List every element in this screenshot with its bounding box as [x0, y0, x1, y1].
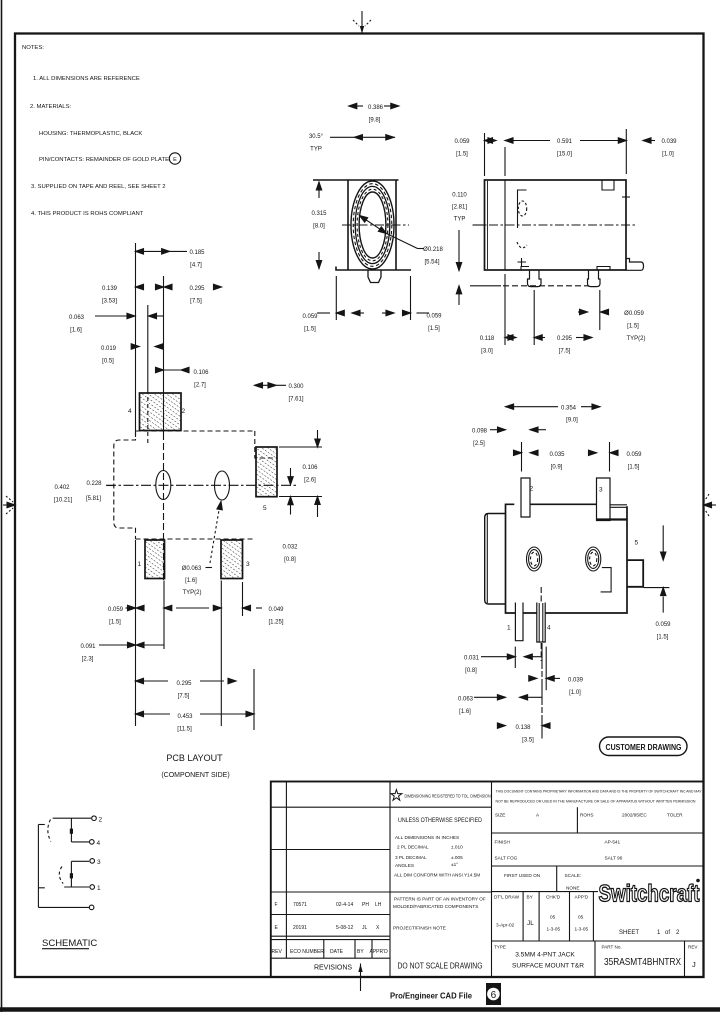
svg-text:JL: JL [527, 920, 534, 927]
svg-text:0.139: 0.139 [102, 286, 118, 292]
svg-text:[0.8]: [0.8] [284, 557, 296, 563]
svg-text:CUSTOMER DRAWING: CUSTOMER DRAWING [606, 743, 682, 752]
svg-text:0.110: 0.110 [452, 193, 467, 199]
front view dim texts [302, 105, 443, 333]
right edge tick [622, 196, 630, 198]
right center alignment arrow [704, 494, 717, 516]
svg-text:[3.53]: [3.53] [102, 299, 117, 305]
dim 0.354 width top [506, 404, 600, 409]
svg-text:[2.81]: [2.81] [452, 205, 467, 211]
svg-text:PART No.: PART No. [602, 945, 622, 950]
svg-text:DATE: DATE [330, 949, 344, 955]
body top line [313, 179, 399, 181]
horizontal centerline through holes [106, 484, 296, 486]
svg-text:5: 5 [635, 540, 639, 547]
svg-text:1-3-05: 1-3-05 [575, 927, 589, 932]
dim 0.039 [1.0] right arrow [643, 138, 655, 143]
svg-text:2. MATERIALS:: 2. MATERIALS: [30, 104, 71, 110]
svg-text:0.091: 0.091 [80, 644, 96, 650]
pin 1b (bottom) [515, 603, 523, 641]
svg-text:4: 4 [128, 408, 132, 415]
svg-text:ROHS: ROHS [580, 813, 594, 818]
BOTTOM-VIEW-DIMENSIONS [474, 404, 669, 739]
svg-text:0.059: 0.059 [626, 452, 642, 458]
SIDE-VIEW-DIMENSIONS [456, 129, 655, 345]
pin 5 (right) [627, 560, 643, 587]
top center alignment tick [353, 11, 371, 34]
svg-text:[2.7]: [2.7] [194, 383, 206, 389]
pin A J-lead [528, 270, 542, 287]
pin 4 (bottom) [537, 603, 545, 643]
svg-text:3: 3 [246, 561, 250, 568]
top-right notch [602, 180, 614, 190]
hole ellipse C mid [529, 550, 540, 569]
svg-text:E: E [275, 925, 279, 931]
outer box [271, 782, 704, 978]
svg-text:NONE: NONE [566, 886, 580, 891]
svg-text:2: 2 [676, 930, 680, 936]
svg-text:ECO NUMBER: ECO NUMBER [290, 949, 324, 955]
svg-text:1: 1 [657, 930, 661, 936]
extension lines below pins [504, 274, 506, 345]
svg-text:30.5°: 30.5° [309, 134, 324, 140]
dim 0.098 [2.5] [490, 427, 546, 432]
svg-text:SHEET: SHEET [619, 930, 639, 936]
svg-text:DO NOT SCALE DRAWING: DO NOT SCALE DRAWING [398, 962, 483, 971]
page left edge line [1, 0, 3, 1012]
dim 0.300 [7.61] double arrow [255, 383, 287, 388]
svg-text:1: 1 [507, 625, 511, 632]
terminal circle 3 [90, 859, 95, 864]
star symbol [391, 790, 402, 801]
svg-text:(COMPONENT SIDE): (COMPONENT SIDE) [161, 772, 229, 779]
svg-text:UNLESS OTHERWISE SPECIFIED: UNLESS OTHERWISE SPECIFIED [398, 817, 482, 824]
seating plane datum line [470, 285, 501, 287]
svg-text:[7.5]: [7.5] [190, 299, 202, 305]
right section divider [491, 782, 493, 978]
svg-text:[7.5]: [7.5] [559, 349, 571, 355]
svg-text:ANGLES: ANGLES [395, 863, 414, 868]
svg-text:0.591: 0.591 [557, 139, 573, 145]
pin 4 inner lines [538, 603, 540, 642]
svg-text:2 PL DECIMAL: 2 PL DECIMAL [397, 845, 429, 850]
part outline dashed [136, 430, 255, 432]
svg-text:5-08-12: 5-08-12 [336, 925, 353, 931]
pin 3 (top) [597, 478, 611, 521]
svg-text:4. THIS PRODUCT IS ROHS COMPLI: 4. THIS PRODUCT IS ROHS COMPLIANT [31, 211, 144, 217]
svg-text:±1°: ±1° [451, 862, 458, 867]
svg-text:0.402: 0.402 [54, 485, 70, 491]
left cap inner line [486, 515, 488, 604]
svg-text:F: F [275, 902, 278, 908]
bottom extension lines [135, 540, 137, 726]
terminal circle 1 [90, 885, 95, 890]
dim row y726 [497, 723, 550, 728]
left center alignment arrow [3, 496, 15, 514]
svg-text:TYP: TYP [454, 217, 466, 223]
TITLE-BLOCK [271, 782, 704, 978]
svg-text:[5.81]: [5.81] [86, 496, 101, 502]
SCHEMATIC [38, 816, 102, 949]
jack opening ellipse inner [359, 192, 386, 258]
line to terminal 4 [71, 841, 89, 843]
body outline [506, 504, 628, 613]
svg-text:20191: 20191 [293, 925, 307, 931]
svg-text:±.010: ±.010 [451, 845, 463, 850]
bracket stub mid [38, 887, 44, 889]
terminal circle 4 [90, 840, 95, 845]
svg-text:0.063: 0.063 [69, 315, 85, 321]
svg-text:[1.5]: [1.5] [456, 152, 468, 158]
Switchcraft logo [599, 879, 700, 908]
svg-text:PH: PH [362, 902, 369, 908]
pad5 small vertical dim arrows [288, 468, 293, 515]
svg-text:E: E [173, 157, 177, 163]
contact L-bracket [601, 568, 612, 592]
svg-text:0.118: 0.118 [480, 336, 495, 342]
svg-text:[15.0]: [15.0] [557, 152, 572, 158]
bottom small step left of pin A [521, 267, 529, 271]
svg-text:Pro/Engineer CAD File: Pro/Engineer CAD File [390, 991, 472, 1001]
svg-text:2: 2 [182, 408, 186, 415]
BOTTOM-VIEW [485, 478, 644, 661]
NOTES-BLOCK [22, 45, 169, 217]
svg-text:2: 2 [530, 486, 534, 493]
svg-text:6: 6 [491, 990, 497, 1001]
FOOTER outside frame [390, 983, 501, 1005]
side view dim texts [426, 139, 677, 355]
pin1 width dim [514, 442, 539, 472]
left narrow column line [285, 782, 287, 959]
svg-text:[0.8]: [0.8] [465, 668, 477, 674]
FRONT-VIEW-DIMENSIONS [316, 103, 429, 320]
sleeve line to terminal 5 [38, 906, 89, 908]
jack ellipse ring dashed 1 [353, 184, 392, 267]
svg-text:3. SUPPLIED ON TAPE AND REEL,: 3. SUPPLIED ON TAPE AND REEL, SEE SHEET … [31, 184, 166, 190]
svg-text:SCALE:: SCALE: [565, 873, 582, 878]
hole ellipse D inner dashed [590, 552, 597, 566]
svg-text:HOUSING: THERMOPLASTIC, BLACK: HOUSING: THERMOPLASTIC, BLACK [39, 131, 142, 137]
svg-text:0.019: 0.019 [101, 346, 117, 352]
svg-text:0.032: 0.032 [282, 545, 298, 551]
svg-text:0.295: 0.295 [557, 336, 573, 342]
svg-text:[5.54]: [5.54] [424, 260, 439, 266]
pad 3 hatched (bottom-right) [221, 540, 243, 579]
svg-text:0.315: 0.315 [311, 211, 327, 217]
hole ellipse A [156, 471, 171, 500]
svg-text:3 PL DECIMAL: 3 PL DECIMAL [395, 855, 427, 860]
svg-text:0.098: 0.098 [472, 429, 488, 435]
svg-text:4: 4 [97, 840, 101, 847]
svg-text:REV: REV [272, 949, 283, 955]
pin5 vertical dim [661, 525, 666, 612]
dim 0.019 [0.5] row [131, 344, 163, 349]
tip contact lower dashes [517, 242, 527, 248]
switch link tip [70, 818, 72, 842]
svg-text:0.039: 0.039 [661, 139, 677, 145]
svg-text:ALL DIM CONFORM WITH ANSI Y14.: ALL DIM CONFORM WITH ANSI Y14.5M [394, 873, 480, 878]
SIDE-VIEW [470, 180, 644, 287]
svg-text:TYP(2): TYP(2) [626, 336, 645, 342]
line to terminal 1 [64, 886, 89, 888]
title block texts [272, 790, 702, 972]
date table dividers [522, 892, 524, 941]
extension lines above body [484, 133, 486, 176]
vertical extension line left (x 135.5) [135, 243, 137, 437]
svg-text:0.031: 0.031 [464, 656, 480, 662]
svg-text:2002/95/EC: 2002/95/EC [622, 813, 647, 818]
jack ellipse ring dashed 3 [357, 189, 388, 261]
dim 0.295 [7.5] arrow [576, 335, 592, 340]
bottom view dim texts [458, 406, 671, 744]
dim 0.110 [2.81] TYP vertical [456, 225, 484, 271]
svg-text:1: 1 [97, 885, 101, 892]
dim 0.591 [15.0] body length [515, 138, 626, 143]
svg-text:TYP: TYP [310, 147, 322, 153]
svg-text:PATTERN IS PART OF AN INVENTOR: PATTERN IS PART OF AN INVENTORY OF [394, 897, 486, 902]
bottom center alignment tick [358, 964, 362, 992]
bottom dim arrows of front view [317, 310, 429, 315]
svg-text:[10.21]: [10.21] [54, 498, 73, 504]
svg-text:PROJECT/FINISH NOTE: PROJECT/FINISH NOTE [393, 926, 446, 931]
svg-text:70571: 70571 [293, 902, 307, 908]
svg-text:0.300: 0.300 [288, 384, 304, 390]
svg-text:0.386: 0.386 [368, 105, 384, 111]
svg-text:A: A [536, 813, 540, 818]
svg-text:BY: BY [357, 949, 364, 955]
revision rows text [272, 902, 389, 955]
svg-text:0.106: 0.106 [302, 465, 318, 471]
body bottom line with left hook [336, 267, 411, 271]
hole ellipse C outer [527, 547, 542, 571]
svg-text:±.005: ±.005 [451, 855, 463, 860]
terminal circle 5 [89, 905, 94, 910]
svg-text:1-3-05: 1-3-05 [547, 927, 561, 932]
svg-text:Ø0.218: Ø0.218 [423, 247, 443, 253]
svg-text:[4.7]: [4.7] [190, 263, 202, 269]
svg-text:4: 4 [547, 625, 551, 632]
svg-text:3: 3 [599, 487, 603, 494]
crosshair mark lower left [518, 258, 527, 266]
svg-text:NOTES:: NOTES: [22, 45, 44, 51]
bottom step right of pin B [597, 267, 610, 271]
body right edge [395, 180, 397, 270]
horizontal centerline [342, 224, 409, 226]
scale cell divider [556, 866, 558, 892]
ground bracket vertical [37, 825, 39, 908]
svg-text:ALL DIMENSIONS IN INCHES: ALL DIMENSIONS IN INCHES [395, 835, 459, 840]
tip line to terminal 2 [53, 817, 91, 819]
CUSTOMER DRAWING stamp [600, 737, 688, 756]
svg-text:Ø0.059: Ø0.059 [624, 311, 644, 317]
vertical center line pad2/hole A [163, 276, 165, 433]
terminal circle 2 [92, 816, 97, 821]
svg-text:[1.0]: [1.0] [569, 690, 581, 696]
svg-text:Switchcraft: Switchcraft [599, 881, 700, 908]
contact dot ring switch [70, 873, 73, 878]
dim row y714 [136, 711, 255, 716]
svg-text:Ø0.063: Ø0.063 [182, 566, 202, 572]
pad 5 hatched (right) [256, 447, 277, 497]
right section row lines [492, 832, 704, 834]
svg-text:0.059: 0.059 [426, 314, 442, 320]
svg-text:0.049: 0.049 [268, 607, 284, 613]
svg-text:REV: REV [688, 945, 698, 950]
svg-text:SIZE: SIZE [495, 813, 505, 818]
pad5 height dim arrows [315, 430, 320, 517]
svg-text:[2.3]: [2.3] [82, 657, 94, 663]
tip contact dashed ellipse [518, 201, 526, 216]
dim 0.315 [8.0] left vertical arrows [316, 182, 321, 269]
dim row y645 [99, 642, 164, 647]
hole ellipse D outer [586, 547, 601, 571]
pin B J-lead [588, 270, 601, 287]
svg-text:LH: LH [375, 902, 382, 908]
svg-text:DT'L DRAW: DT'L DRAW [494, 895, 520, 900]
svg-text:[9.8]: [9.8] [369, 118, 381, 124]
horizontal centerline [473, 224, 636, 226]
svg-text:3-Apr-02: 3-Apr-02 [496, 923, 515, 928]
svg-text:02-4-14: 02-4-14 [336, 902, 353, 908]
svg-text:[7.5]: [7.5] [178, 694, 190, 700]
svg-text:0.138: 0.138 [515, 725, 531, 731]
svg-text:DIMENSIONING REGISTERED TO TOL: DIMENSIONING REGISTERED TO TOL. DIMENSIO… [405, 794, 491, 799]
diameter dim arrows inside ellipse with leader [358, 213, 424, 248]
svg-text:0.039: 0.039 [568, 678, 584, 684]
pin5 ext line right [644, 587, 670, 589]
svg-text:35RASMT4BHNTRX: 35RASMT4BHNTRX [604, 956, 681, 968]
svg-text:[0.9]: [0.9] [551, 465, 563, 471]
svg-text:[1.5]: [1.5] [428, 326, 440, 332]
svg-text:THIS DOCUMENT CONTAINS PROPRIE: THIS DOCUMENT CONTAINS PROPRIETARY INFOR… [496, 790, 702, 794]
dim dia 0.059 pin arrows [578, 309, 609, 314]
jack ellipse ring solid 2 [355, 186, 390, 263]
left section row lines [271, 806, 492, 808]
contact dot tip switch [70, 829, 73, 834]
svg-text:[1.5]: [1.5] [657, 635, 669, 641]
dim 0.059 [1.5] seating vertical [456, 286, 461, 305]
leader dia 0.063 to hole B [206, 501, 224, 567]
svg-text:0.295: 0.295 [176, 681, 192, 687]
top right thick step line [597, 518, 628, 520]
svg-text:[8.0]: [8.0] [313, 224, 325, 230]
svg-text:[9.0]: [9.0] [566, 418, 578, 424]
pin3 width dim [589, 442, 619, 472]
body left edge [347, 180, 349, 270]
svg-text:REVISIONS: REVISIONS [314, 965, 352, 972]
top right thin double lines [610, 504, 627, 506]
dim 0.063 [1.6] row [95, 313, 164, 318]
svg-text:[3.5]: [3.5] [522, 738, 534, 744]
svg-text:[7.61]: [7.61] [288, 397, 303, 403]
PCB-DIMENSIONS [95, 249, 322, 730]
svg-text:[1.5]: [1.5] [627, 324, 639, 330]
svg-text:0.059: 0.059 [108, 607, 124, 613]
dim 30.5 TYP arrow line [330, 135, 395, 140]
hole ellipse D mid [588, 550, 599, 569]
center pin tab below body [368, 270, 381, 283]
svg-text:0.185: 0.185 [189, 250, 205, 256]
svg-text:1: 1 [138, 561, 142, 568]
pad 2 hatched (top) [140, 393, 182, 431]
switch link ring [70, 861, 72, 887]
svg-text:0.106: 0.106 [193, 370, 209, 376]
svg-text:[1.25]: [1.25] [268, 620, 283, 626]
dim 0.386 [9.8] top [349, 103, 399, 108]
tip spring contact arc [48, 820, 51, 842]
flange inner vertical line [504, 180, 506, 270]
svg-text:[1.0]: [1.0] [662, 152, 674, 158]
svg-text:of: of [665, 930, 670, 936]
left cap double line [487, 181, 489, 269]
svg-text:TYP(2): TYP(2) [182, 590, 201, 596]
svg-text:NOT BE REPRODUCED OR USED IN T: NOT BE REPRODUCED OR USED IN THE MANUFAC… [496, 800, 696, 804]
svg-text:J: J [692, 960, 696, 969]
right section texts [494, 813, 698, 970]
extension lines below front view [335, 276, 337, 320]
svg-text:0.059: 0.059 [302, 314, 318, 320]
svg-text:TYPE: TYPE [494, 945, 506, 950]
body outline [485, 180, 627, 270]
pad 1 hatched (bottom-left) [145, 540, 165, 579]
svg-text:1. ALL DIMENSIONS ARE REFERENC: 1. ALL DIMENSIONS ARE REFERENCE [33, 76, 140, 82]
vertical centerline segments [540, 587, 542, 603]
pin 1 (top) [521, 478, 530, 517]
dim row y678 [529, 676, 560, 681]
svg-text:05: 05 [578, 915, 584, 920]
dim row y681 [136, 678, 237, 683]
size row divider [576, 807, 578, 833]
dim 0.106 [2.7] row [156, 367, 190, 372]
svg-text:FIRST USED ON: FIRST USED ON [504, 873, 540, 878]
svg-text:SALT FOG: SALT FOG [495, 856, 518, 861]
FRONT-VIEW [313, 180, 411, 283]
svg-text:0.035: 0.035 [549, 452, 565, 458]
svg-text:[11.5]: [11.5] [177, 727, 192, 733]
pcb dim texts [54, 250, 318, 733]
svg-text:[2.5]: [2.5] [473, 441, 485, 447]
svg-text:FINISH: FINISH [495, 840, 510, 845]
pad5 vertical dim ext lines [279, 446, 322, 448]
bottom row dividers [594, 941, 596, 977]
black square with circled 6 [486, 983, 501, 1005]
svg-text:[1.6]: [1.6] [70, 328, 82, 334]
svg-text:SCHEMATIC: SCHEMATIC [42, 938, 97, 949]
rev table header dividers [323, 940, 325, 959]
svg-text:[0.5]: [0.5] [102, 359, 114, 365]
svg-text:5: 5 [263, 505, 267, 512]
svg-text:SURFACE MOUNT T&R: SURFACE MOUNT T&R [512, 963, 584, 970]
svg-text:PCB LAYOUT: PCB LAYOUT [166, 753, 223, 763]
svg-text:[1.6]: [1.6] [459, 709, 471, 715]
svg-text:[1.5]: [1.5] [304, 327, 316, 333]
svg-text:X: X [376, 925, 380, 931]
svg-text:0.059: 0.059 [454, 139, 470, 145]
dim row y608 [126, 605, 263, 610]
hole ellipse B [215, 471, 230, 500]
svg-text:[1.5]: [1.5] [628, 465, 640, 471]
bracket stub top [38, 824, 44, 826]
svg-text:PIN/CONTACTS: REMAINDER OF GOL: PIN/CONTACTS: REMAINDER OF GOLD PLATE [39, 157, 169, 163]
note 2 plating symbol circle [169, 153, 180, 164]
svg-text:CHK'D: CHK'D [546, 895, 561, 900]
hole ellipse C inner dashed [531, 552, 538, 566]
svg-text:[1.6]: [1.6] [185, 578, 197, 584]
vertical extension line x 147.8 [147, 305, 149, 390]
dim 0.059 [1.5] flange arrows [485, 138, 516, 143]
bottom pins ext lines [514, 647, 516, 668]
tip contact bracket inside [518, 190, 527, 228]
